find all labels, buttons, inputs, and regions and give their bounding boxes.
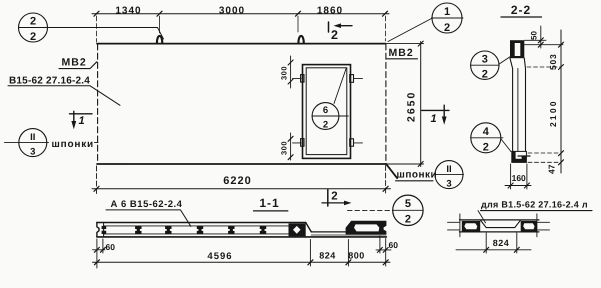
svg-text:МВ2: МВ2 (62, 57, 87, 69)
svg-text:2: 2 (483, 142, 489, 154)
svg-text:3000: 3000 (219, 6, 245, 17)
svg-text:В15-62 27.16-2.4: В15-62 27.16-2.4 (9, 76, 90, 87)
svg-text:503: 503 (548, 53, 558, 70)
detail piece right block (521, 221, 537, 232)
dim line 4596 / 824 / 800 (310, 239, 385, 267)
svg-text:50: 50 (530, 31, 539, 40)
dim 300 upper (290, 56, 292, 88)
svg-text:1: 1 (430, 113, 436, 125)
svg-text:II: II (30, 132, 35, 143)
svg-text:2: 2 (331, 28, 338, 42)
svg-text:300: 300 (280, 66, 289, 80)
section 2-2 taper and web (510, 58, 513, 151)
svg-text:1: 1 (78, 115, 84, 127)
detail piece left block (462, 221, 480, 232)
rib 3 (197, 226, 203, 234)
svg-text:1860: 1860 (317, 6, 343, 17)
thin band inner bottom line (311, 234, 386, 236)
callout circle 5/2 (393, 195, 423, 225)
svg-text:А 6 В15-62-2.4: А 6 В15-62-2.4 (111, 199, 183, 210)
detail piece stub lines (448, 222, 550, 230)
lifting loop 2 (298, 36, 303, 44)
thin band top line (311, 231, 345, 233)
rib 4 (228, 226, 234, 234)
extension line panel left top (96, 16, 98, 42)
detail piece tapers (480, 220, 521, 228)
callout circle 6/2 (312, 103, 339, 130)
svg-text:6: 6 (323, 105, 328, 116)
callout circle 3/2 (471, 51, 499, 79)
svg-text:160: 160 (512, 173, 526, 183)
fixing tab top-right (350, 75, 354, 83)
svg-text:1-1: 1-1 (259, 196, 279, 210)
fixing tab bottom-right (350, 139, 354, 146)
svg-text:2: 2 (331, 191, 337, 203)
callout circle 2/2 (19, 13, 48, 42)
panel outline top edge (97, 43, 386, 45)
section 1-1 strip: left end with keyway notch (97, 223, 99, 237)
panel right edge (dashed) (385, 44, 387, 164)
dim 2650 (387, 44, 424, 164)
dim 824 of detail piece (486, 233, 517, 253)
strip inner void lines (104, 226, 289, 234)
svg-text:60: 60 (106, 242, 116, 252)
svg-text:1: 1 (444, 6, 450, 18)
svg-text:2: 2 (30, 16, 36, 28)
detail piece edges (460, 220, 539, 232)
section mark 2 bottom (327, 190, 329, 207)
section mark 1 right (422, 109, 449, 111)
section 2-2 top block (510, 40, 524, 58)
svg-text:для В1.5-62 27.16-2.4 л: для В1.5-62 27.16-2.4 л (481, 200, 588, 210)
svg-text:5: 5 (405, 198, 411, 210)
svg-text:824: 824 (319, 251, 336, 261)
rib 5 (260, 226, 266, 234)
detail piece for B1.5-62: break lines (460, 214, 537, 237)
svg-text:3: 3 (446, 179, 451, 190)
rib 2 (165, 226, 171, 234)
extension line loop2 (297, 16, 299, 32)
left cap blobs (102, 226, 107, 229)
fixing tab top-left (301, 75, 304, 83)
svg-text:2650: 2650 (406, 91, 418, 122)
dim 60 right under strip (379, 236, 381, 253)
top dimension line (92, 13, 389, 15)
panel left edge (dashed) (97, 44, 99, 164)
svg-text:3: 3 (482, 53, 488, 65)
svg-text:2: 2 (323, 120, 328, 131)
svg-text:2100: 2100 (548, 99, 558, 127)
extension line panel right top (385, 16, 387, 41)
svg-text:800: 800 (348, 251, 365, 261)
svg-text:2: 2 (405, 214, 411, 226)
extension line loop1 (159, 16, 161, 33)
end block of strip with diamond void (289, 223, 306, 236)
callout circle 1/2 (432, 3, 462, 33)
svg-text:II: II (446, 164, 451, 175)
panel outline bottom edge (97, 163, 386, 165)
dim 50 at top of section 2-2 (525, 40, 564, 44)
door opening inner frame (306, 68, 347, 155)
section mark 2 top (328, 22, 330, 32)
tab tick lines (293, 79, 363, 143)
main vertical dim line of section 2-2 (560, 30, 562, 173)
svg-text:3: 3 (30, 147, 35, 158)
svg-text:1340: 1340 (115, 6, 141, 17)
dim 300 lower (290, 133, 292, 160)
svg-text:2: 2 (30, 31, 36, 43)
svg-text:300: 300 (280, 141, 289, 155)
svg-text:824: 824 (493, 238, 510, 248)
svg-text:4: 4 (483, 126, 490, 138)
callout circle 4/2 (471, 123, 501, 153)
svg-text:2-2: 2-2 (511, 3, 531, 17)
svg-text:шпонки: шпонки (397, 170, 438, 181)
strip taper to thin band (306, 223, 312, 232)
svg-text:47: 47 (547, 164, 557, 174)
label shponki right + circle II/3 (386, 164, 397, 178)
svg-text:2: 2 (482, 69, 488, 81)
strip left cap line (103, 223, 105, 236)
svg-text:МВ2: МВ2 (389, 47, 414, 59)
section 2-2 bottom block (512, 151, 527, 162)
fixing tab bottom-left (301, 139, 304, 147)
dim 160 below section 2-2 (511, 164, 527, 189)
section mark 1 left (70, 113, 93, 115)
svg-text:60: 60 (389, 240, 399, 250)
svg-text:шпонки: шпонки (52, 139, 94, 150)
svg-text:6220: 6220 (223, 175, 251, 187)
ribs of hollow strip (102, 221, 387, 236)
dashed extension lines from bottom block (528, 152, 559, 154)
dim 6220 (96, 166, 98, 194)
strip top edge (97, 222, 306, 224)
callout circle II/3 left + shponki (19, 129, 47, 157)
strip bottom edge (97, 236, 387, 238)
door opening outer frame (303, 65, 351, 159)
right block of strip (346, 221, 387, 235)
svg-text:4596: 4596 (207, 251, 232, 262)
dim 60 left under strip (97, 239, 103, 268)
lifting loop 1 (157, 36, 162, 44)
svg-text:2: 2 (444, 22, 450, 34)
